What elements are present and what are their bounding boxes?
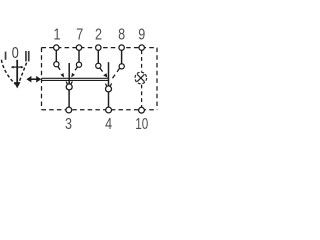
wire terminal1 to contact: [55, 50, 57, 62]
pole2 blade whiskers: [105, 83, 111, 86]
terminal 10: [139, 107, 145, 113]
svg-text:1: 1: [54, 27, 61, 44]
lamp supply dashed wire 9 to lamp: [141, 50, 143, 71]
svg-text:9: 9: [138, 27, 145, 44]
contact circle of terminal 8: [119, 64, 124, 69]
svg-text:8: 8: [118, 27, 125, 44]
wire terminal2 to contact: [97, 50, 99, 63]
pole1 blade contact circle: [66, 84, 72, 90]
lever travel double arrow: [11, 66, 24, 69]
contact circle of terminal 1: [54, 62, 59, 67]
actuation arrow from contact 7: [71, 67, 77, 78]
pole2 blade contact circle: [106, 86, 112, 92]
push-pull double arrow: [26, 76, 41, 83]
terminal 2: [96, 45, 101, 50]
lamp dashed wire lamp to 10: [141, 85, 143, 108]
pole1 movable blade upper: [68, 63, 70, 84]
position label II: [25, 51, 27, 61]
actuation arrow from contact 2: [100, 68, 107, 77]
svg-text:3: 3: [65, 116, 72, 133]
terminal 9: [139, 45, 144, 50]
dashed actuation line from contact 8: [111, 68, 120, 80]
terminal 3: [66, 107, 72, 113]
actuation arrow from contact 1: [58, 66, 64, 77]
lever arrowhead: [14, 82, 21, 88]
terminal 7: [76, 45, 81, 50]
pole2 movable blade upper: [108, 62, 110, 86]
lamp L1: [135, 72, 147, 84]
contact circle of terminal 7: [76, 62, 81, 67]
lever travel dashed arc left: [1, 60, 15, 84]
lever travel dashed arc right: [19, 63, 27, 84]
pole1 blade whiskers: [66, 81, 72, 84]
switch body dashed box: [42, 48, 158, 110]
actuator bar (double line): [42, 77, 109, 79]
lever shaft: [16, 60, 18, 83]
svg-text:7: 7: [76, 27, 83, 44]
terminal 1: [54, 45, 59, 50]
position label I: [5, 52, 7, 60]
svg-text:10: 10: [135, 116, 148, 133]
svg-text:2: 2: [95, 27, 102, 44]
wire terminal8 to contact: [121, 50, 123, 64]
terminal 8: [119, 45, 124, 50]
pole2 blade lower wire to terminal 4: [108, 92, 110, 107]
terminal 4: [106, 107, 112, 113]
pole1 blade lower wire to terminal 3: [68, 90, 70, 107]
svg-text:4: 4: [105, 116, 112, 133]
svg-text:0: 0: [12, 45, 19, 62]
contact circle of terminal 2: [96, 63, 101, 68]
wire terminal7 to contact: [78, 50, 80, 62]
